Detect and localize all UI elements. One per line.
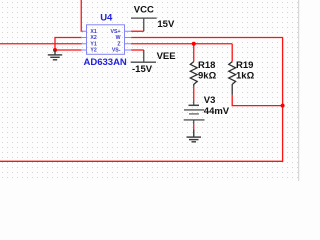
svg-text:Y1: Y1 bbox=[90, 41, 96, 47]
svg-text:W: W bbox=[116, 35, 121, 41]
svg-text:44mV: 44mV bbox=[204, 106, 230, 117]
svg-text:9kΩ: 9kΩ bbox=[198, 70, 217, 81]
svg-text:Y2: Y2 bbox=[90, 48, 96, 54]
svg-text:VS+: VS+ bbox=[111, 29, 121, 35]
svg-text:VCC: VCC bbox=[134, 4, 154, 15]
svg-text:U4: U4 bbox=[100, 12, 113, 23]
svg-text:VS-: VS- bbox=[112, 48, 121, 54]
svg-text:-15V: -15V bbox=[132, 64, 153, 75]
svg-text:AD633AN: AD633AN bbox=[84, 57, 127, 68]
svg-text:15V: 15V bbox=[157, 19, 175, 30]
svg-text:X1: X1 bbox=[90, 29, 96, 35]
svg-text:X2: X2 bbox=[90, 35, 96, 41]
svg-text:VEE: VEE bbox=[157, 51, 176, 62]
svg-text:1kΩ: 1kΩ bbox=[236, 70, 255, 81]
svg-text:V3: V3 bbox=[204, 95, 216, 106]
